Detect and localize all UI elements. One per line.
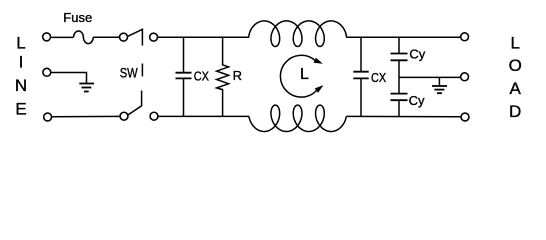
wire bottom rail switch to choke <box>158 115 249 117</box>
switch SW pole A contact 2 <box>150 33 158 41</box>
switch SW pole B contact 2 <box>150 112 158 120</box>
capacitor Cy1 plates <box>391 54 408 61</box>
terminal line-mid (earth) <box>43 68 51 76</box>
terminal load-bottom <box>461 113 469 121</box>
capacitor Cy2 top stub <box>398 77 400 93</box>
svg-text:SW: SW <box>120 65 139 81</box>
svg-text:R: R <box>233 68 242 83</box>
wire top rail choke to load <box>346 36 461 38</box>
ground (load side) stub <box>438 77 440 86</box>
wire top-left to fuse <box>51 36 73 38</box>
wire bottom-left to switch <box>52 115 120 117</box>
choke top winding L <box>249 21 347 47</box>
wire top rail switch to choke <box>158 36 249 38</box>
node LOAD label <box>509 34 522 121</box>
svg-text:L: L <box>16 34 25 53</box>
svg-text:Cy: Cy <box>409 46 425 61</box>
terminal load-top <box>461 33 469 41</box>
wire middle rail <box>399 76 461 78</box>
svg-text:CX: CX <box>194 69 209 84</box>
ground (load side) <box>432 86 447 93</box>
choke flux arrowhead bottom <box>315 85 324 93</box>
capacitor Cy2 plates <box>391 94 408 101</box>
capacitor Cy1 bottom stub <box>398 60 400 77</box>
svg-text:I: I <box>19 52 24 71</box>
svg-text:D: D <box>509 102 521 121</box>
ground (line side) <box>79 84 94 92</box>
switch linkage dash <box>141 64 143 77</box>
wire earth terminal to ground <box>51 73 86 84</box>
wire fuse to switch <box>93 36 119 38</box>
capacitor Cy2 bottom stub <box>398 100 400 116</box>
capacitor CX1 top stub <box>183 37 185 72</box>
switch SW pole B blade <box>128 91 141 115</box>
capacitor Cy1 top stub <box>398 37 400 53</box>
svg-text:CX: CX <box>371 70 386 85</box>
svg-text:Cy: Cy <box>409 93 425 108</box>
terminal line-bottom <box>44 113 52 121</box>
choke flux arrowhead top <box>314 58 323 64</box>
svg-text:N: N <box>15 76 27 95</box>
terminal line-top <box>43 33 51 41</box>
capacitor CX2 bottom stub <box>360 78 362 116</box>
capacitor CX2 plates <box>353 72 368 79</box>
svg-text:L: L <box>510 34 519 53</box>
svg-text:L: L <box>300 66 309 83</box>
wire bottom rail choke to load <box>346 115 461 117</box>
switch SW pole B contact 1 <box>120 112 128 120</box>
terminal load-mid <box>461 73 469 81</box>
capacitor CX1 plates <box>176 73 192 79</box>
choke flux arc <box>280 55 316 97</box>
node LINE label <box>15 34 27 119</box>
switch SW pole A contact 1 <box>120 33 128 41</box>
choke bottom winding L <box>249 105 346 131</box>
svg-text:E: E <box>15 99 26 118</box>
capacitor CX2 top stub <box>360 37 362 71</box>
fuse F1 <box>74 31 94 44</box>
svg-text:A: A <box>510 79 522 98</box>
switch SW pole A blade <box>128 29 143 45</box>
svg-text:Fuse: Fuse <box>63 10 92 25</box>
svg-text:O: O <box>509 56 522 75</box>
capacitor CX1 bottom stub <box>183 78 185 116</box>
resistor R <box>217 37 229 116</box>
